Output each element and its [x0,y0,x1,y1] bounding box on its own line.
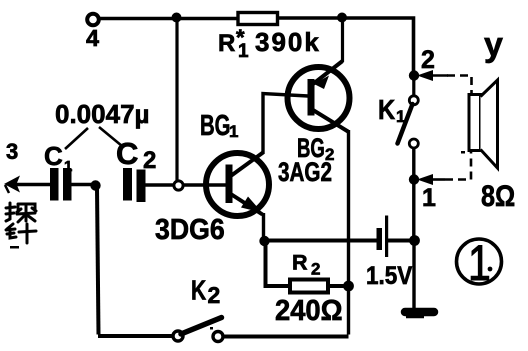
svg-text:R: R [218,30,235,57]
switch K1 lever [398,104,413,144]
wire top rail right [277,18,414,73]
node R2 right [343,281,354,292]
svg-text:BG: BG [200,110,230,142]
svg-text:K: K [378,93,395,125]
svg-text:2: 2 [208,282,221,308]
bottom rail wire [98,334,172,338]
probe terminal arrow [4,176,20,193]
node junction top-left [172,13,182,23]
wire node to ground [412,241,415,309]
BG2 collector [313,110,348,132]
svg-text:3DG6: 3DG6 [155,213,225,245]
wire top rail left [99,17,239,21]
label 探 (hand-drawn) [6,203,36,222]
circled figure number 1 [457,239,502,284]
label 3AG2 [278,158,332,188]
BG1 emitter [230,194,263,215]
svg-text:1.5V: 1.5V [366,262,412,290]
node battery junction [409,235,420,246]
pointer line left [65,128,88,149]
switch K1 lower contact [409,139,418,148]
switch K2 left contact [173,331,183,341]
wire K2 to right corner [225,335,349,339]
label K2 [191,276,206,307]
wire R2 to node [328,284,349,288]
svg-text:2: 2 [421,46,435,74]
capacitor C2 [123,168,132,201]
transistor BG1 (3DG6) [206,153,269,216]
label 1.5V [366,262,412,290]
label 240 ohm [275,294,343,326]
svg-text:1: 1 [396,107,405,126]
resistor R2 [290,280,328,293]
ring node at BG1 base [174,181,183,190]
svg-text:K: K [191,276,206,307]
BG2 emitter with arrow to base [313,61,343,84]
pointer line right [99,127,122,146]
switch K2 right contact [213,332,223,342]
svg-text:2: 2 [311,260,320,279]
switch K2 lever [181,318,222,335]
node junction C1-C2 [90,180,100,190]
capacitor C1 [50,168,59,201]
wire BG2 emitter up [341,17,344,62]
svg-text:8Ω: 8Ω [481,179,515,213]
svg-text:1: 1 [64,158,72,175]
svg-text:0.0047µ: 0.0047µ [55,99,150,129]
label 8 ohm [481,179,515,213]
svg-text:C: C [116,136,138,171]
wire emitter node down to R2 [266,241,291,286]
label BG2 [297,133,325,163]
svg-text:C: C [44,141,63,171]
svg-text:1: 1 [229,122,238,141]
svg-text:3: 3 [6,139,18,164]
resistor R1 [238,13,278,25]
wire BG2 collector down [347,130,350,335]
svg-text:240Ω: 240Ω [275,294,343,326]
node 1 of K1 [409,174,419,184]
svg-text:3AG2: 3AG2 [278,158,332,188]
battery wire [264,239,377,243]
wire C2 to ring [146,183,175,187]
wire battery to node [388,239,414,243]
wire ring to BG1 base [183,183,226,187]
svg-text:390k: 390k [255,27,321,57]
wire BG1 emitter down [262,213,265,240]
label BG1 [200,110,230,142]
wire probe to C1 [14,183,50,187]
scan speck above K2 right contact [210,327,213,330]
label 3DG6 [155,213,225,245]
node junction above BG2 [337,13,347,23]
svg-text:1: 1 [422,184,436,212]
battery positive plate [385,216,388,258]
scan speck below zhen [10,246,19,249]
transistor BG2 (3AG2) [288,67,350,129]
wire C1 to junction [71,183,100,187]
ground [405,308,434,317]
svg-text:1: 1 [238,41,249,62]
label K1 [378,93,395,125]
wire K1 to node 1 [412,148,415,240]
svg-text:1: 1 [468,235,491,291]
wire vertical from top rail to ring [175,18,178,181]
terminal 4 [87,14,99,26]
BG1 collector [230,153,263,177]
switch K1 upper contact [409,96,418,105]
scan speck near 8ohm [461,151,465,154]
svg-text:2: 2 [143,147,156,174]
label 针 (hand-drawn) [6,224,36,243]
svg-text:4: 4 [86,25,99,51]
speaker Y [469,95,481,151]
wire BG1 collector to BG2 base [263,94,308,155]
svg-text:y: y [484,26,503,64]
wire junction down to bottom rail [97,188,99,335]
dashed wire node2 to speaker [447,76,472,94]
node 2 of K1 [409,70,419,80]
dashed wire node1 to speaker [445,152,471,180]
svg-text:R: R [292,251,308,275]
node emitter junction [259,236,269,246]
battery negative plate [377,228,383,250]
